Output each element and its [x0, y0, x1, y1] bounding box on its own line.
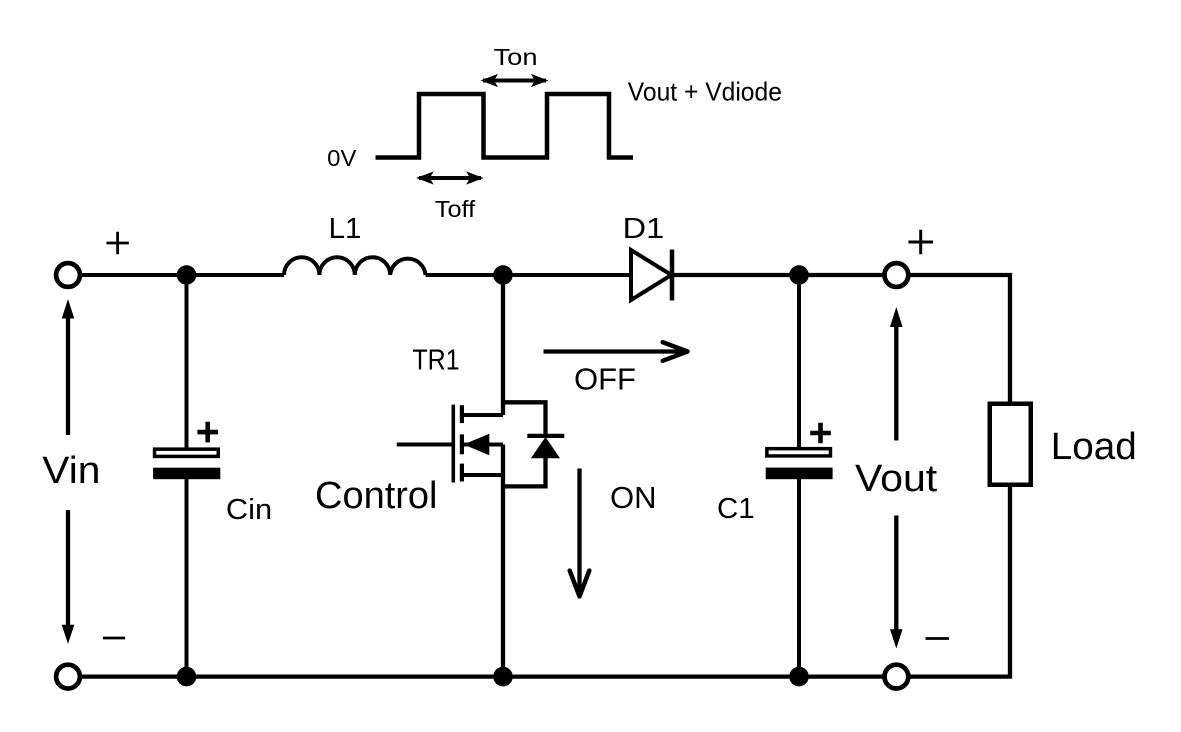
svg-text:C1: C1 [717, 493, 755, 525]
svg-text:TR1: TR1 [412, 344, 459, 376]
svg-text:0V: 0V [327, 145, 357, 171]
svg-text:L1: L1 [329, 213, 362, 245]
svg-text:ON: ON [610, 480, 657, 515]
svg-text:Load: Load [1051, 426, 1137, 468]
svg-text:D1: D1 [623, 213, 665, 245]
svg-text:Vout + Vdiode: Vout + Vdiode [628, 77, 782, 107]
svg-text:Vin: Vin [42, 450, 100, 492]
svg-text:Ton: Ton [494, 44, 538, 70]
svg-text:Control: Control [315, 475, 438, 517]
svg-text:OFF: OFF [574, 362, 636, 397]
svg-text:Cin: Cin [226, 494, 272, 526]
svg-text:Toff: Toff [435, 196, 476, 222]
svg-text:Vout: Vout [855, 458, 938, 500]
